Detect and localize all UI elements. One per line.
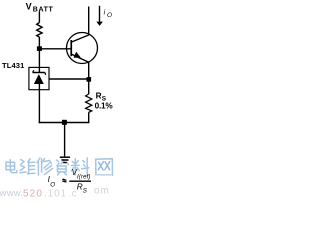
svg-text:O: O <box>107 12 112 19</box>
svg-text:O: O <box>50 181 55 188</box>
svg-text:R: R <box>96 91 102 100</box>
svg-text:BATT: BATT <box>33 6 54 13</box>
svg-text:www.: www. <box>0 188 23 199</box>
svg-text:om: om <box>94 186 110 197</box>
svg-text:0.1%: 0.1% <box>95 102 114 111</box>
svg-text:.101: .101 <box>44 188 67 199</box>
svg-text:S: S <box>83 187 88 194</box>
svg-text:TL431: TL431 <box>2 61 25 70</box>
svg-text:520: 520 <box>23 188 43 199</box>
svg-text:I(ref): I(ref) <box>77 174 91 181</box>
svg-text:V: V <box>26 1 32 11</box>
